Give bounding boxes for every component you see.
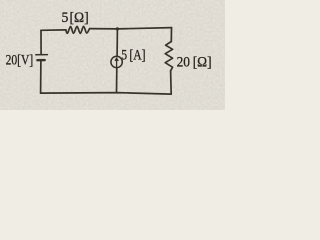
wire right side: top corner down to resistor R2 bbox=[170, 28, 172, 42]
wire node A to top-right corner bbox=[117, 28, 171, 29]
wire resistor R2 to bottom-right corner bbox=[170, 71, 173, 94]
wire current source I1 to bottom rail bbox=[116, 68, 118, 93]
wire bottom rail bbox=[41, 93, 172, 95]
node A junction dot bbox=[116, 27, 119, 30]
wire middle branch: node A down to current source I1 bbox=[116, 29, 118, 57]
svg-text:5 [Ω]: 5 [Ω] bbox=[62, 10, 89, 26]
voltage source V1 battery long plate bbox=[36, 54, 48, 56]
voltage source V1 battery short plate bbox=[37, 59, 44, 62]
svg-text:5 [A]: 5 [A] bbox=[121, 48, 145, 64]
current source I1 circle bbox=[111, 56, 122, 67]
paper background bbox=[0, 0, 225, 110]
resistor R2 20[Ω] vertical zigzag bbox=[165, 42, 172, 71]
wire battery bottom to bottom-left corner bbox=[40, 61, 42, 93]
wire resistor R1 to node A bbox=[90, 28, 118, 30]
current source I1 arrowhead bbox=[115, 58, 118, 61]
svg-text:20 [Ω]: 20 [Ω] bbox=[177, 54, 212, 70]
current source I1 arrow shaft (pointing up) bbox=[116, 60, 118, 67]
wire left side: top corner down to battery top plate bbox=[40, 30, 42, 54]
wire top-left to resistor R1 left lead bbox=[41, 29, 66, 31]
svg-text:20[V]: 20[V] bbox=[6, 52, 34, 68]
resistor R1 5[Ω] zigzag bbox=[66, 26, 90, 33]
